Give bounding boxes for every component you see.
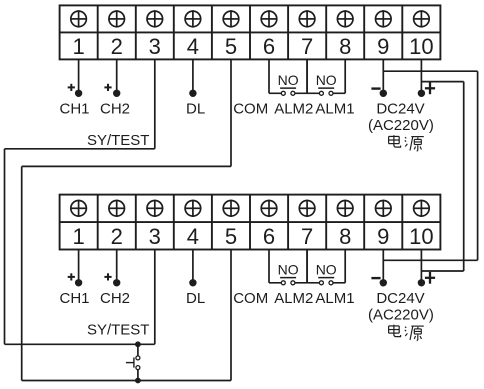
svg-text:1: 1 — [72, 224, 84, 249]
wire B1 to CH1 input — [78, 250, 80, 283]
node A10 power dot — [418, 90, 425, 97]
svg-text:1: 1 — [72, 34, 84, 59]
block B (lower strip) screw terminal 3 — [147, 200, 163, 217]
node com bus junction — [135, 378, 141, 384]
svg-text:5: 5 — [225, 224, 237, 249]
wire A10 power plus — [420, 59, 422, 93]
wire B2 to CH2 input — [116, 250, 118, 283]
wire right rail minus — [477, 71, 479, 260]
block B (lower strip) screw terminal 9 — [376, 200, 392, 217]
svg-text:2: 2 — [111, 224, 123, 249]
terminal block A (upper strip) body — [60, 5, 441, 59]
node B9 power dot — [380, 279, 387, 286]
polarity + sign upper — [425, 82, 435, 94]
node CH2 terminal dot — [113, 90, 120, 97]
svg-text:3: 3 — [149, 224, 161, 249]
svg-text:CH2: CH2 — [100, 100, 130, 117]
wire junction to button — [137, 344, 139, 356]
block A (upper strip) screw terminal 6 — [261, 10, 277, 27]
svg-text:DC24V: DC24V — [376, 290, 424, 307]
svg-text:5: 5 — [225, 34, 237, 59]
block B (lower strip) screw terminal 4 — [185, 200, 201, 217]
label power 源 upper — [405, 137, 424, 151]
relay contact NO ALM1 upper — [307, 59, 345, 95]
svg-text:4: 4 — [187, 224, 199, 249]
svg-text:ALM1: ALM1 — [315, 290, 354, 307]
wire right rail plus — [463, 82, 465, 271]
svg-text:2: 2 — [111, 34, 123, 59]
wire B5 COM drop — [230, 250, 232, 381]
relay contact NO ALM2 lower — [269, 250, 307, 285]
svg-text:7: 7 — [301, 34, 313, 59]
node CH1 terminal dot — [75, 90, 82, 97]
relay contact NO ALM1 lower — [307, 250, 345, 285]
svg-text:NO: NO — [278, 72, 299, 88]
block B (lower strip) screw terminal 5 — [223, 200, 239, 217]
node A9 power dot — [380, 90, 387, 97]
svg-text:CH1: CH1 — [59, 290, 89, 307]
label power 电 upper — [389, 135, 401, 147]
svg-text:NO: NO — [278, 261, 299, 277]
wire A10 to inner rail — [421, 81, 463, 83]
block A (upper strip) screw terminal 1 — [71, 10, 87, 27]
wire A3 horizontal run — [5, 148, 155, 150]
svg-text:SY/TEST: SY/TEST — [87, 321, 150, 338]
CH1 lower + sign — [68, 273, 75, 280]
svg-text:(AC220V): (AC220V) — [368, 117, 434, 134]
svg-text:COM: COM — [233, 290, 268, 307]
svg-text:(AC220V): (AC220V) — [368, 306, 434, 323]
block A (upper strip) screw terminal 2 — [109, 10, 125, 27]
block B (lower strip) terminal numbers 1-10 — [72, 224, 433, 249]
svg-text:CH2: CH2 — [100, 290, 130, 307]
wire B3 SY/TEST drop — [154, 250, 156, 345]
svg-text:NO: NO — [316, 72, 337, 88]
wire B10 power plus — [420, 250, 422, 283]
block B (lower strip) screw terminal 10 — [414, 200, 430, 217]
block A (upper strip) screw terminal 10 — [414, 10, 430, 27]
node DL terminal dot — [189, 90, 196, 97]
node DL lower dot — [189, 279, 196, 286]
block B (lower strip) screw terminal 7 — [299, 200, 315, 217]
node CH1 lower dot — [75, 279, 82, 286]
wire B4 to DL — [192, 250, 194, 283]
wire com bus horizontal — [22, 380, 231, 382]
terminal block B (lower strip) body — [60, 195, 441, 250]
relay contact NO ALM2 upper — [269, 59, 307, 95]
block A (upper strip) screw terminal 3 — [147, 10, 163, 27]
wire A4 to DL — [192, 59, 194, 93]
svg-text:6: 6 — [263, 224, 275, 249]
wire button to com bus — [137, 370, 139, 381]
svg-text:DC24V: DC24V — [376, 101, 424, 118]
block B (lower strip) screw terminal 8 — [337, 200, 353, 217]
node CH2 lower dot — [113, 279, 120, 286]
polarity + sign lower — [425, 272, 435, 284]
pushbutton SB1 contacts — [126, 356, 140, 370]
polarity - sign upper — [371, 87, 380, 89]
block A (upper strip) screw terminal 7 — [299, 10, 315, 27]
wire test bus horizontal — [5, 343, 155, 345]
svg-text:8: 8 — [339, 34, 351, 59]
svg-text:8: 8 — [339, 224, 351, 249]
wire A3 SY/TEST drop — [154, 59, 156, 148]
wire left rail from A3 — [4, 149, 6, 344]
CH2 lower + sign — [104, 273, 111, 280]
svg-text:9: 9 — [377, 224, 389, 249]
wire A1 to CH1 input — [78, 59, 80, 93]
node test bus junction — [135, 341, 141, 347]
wire A5 COM drop — [230, 59, 232, 166]
wire A5 horizontal run — [22, 165, 231, 167]
block A (upper strip) screw terminal 5 — [223, 10, 239, 27]
svg-text:ALM2: ALM2 — [274, 100, 313, 117]
wire rail to B9 — [383, 259, 477, 261]
svg-text:10: 10 — [409, 224, 433, 249]
svg-text:SY/TEST: SY/TEST — [87, 132, 150, 149]
svg-text:DL: DL — [186, 290, 205, 307]
svg-text:ALM2: ALM2 — [274, 290, 313, 307]
svg-text:ALM1: ALM1 — [315, 100, 354, 117]
polarity - sign lower — [371, 277, 380, 279]
wire B9 power minus — [382, 250, 384, 283]
node B10 power dot — [418, 279, 425, 286]
svg-text:CH1: CH1 — [59, 100, 89, 117]
block B (lower strip) screw terminal 2 — [109, 200, 125, 217]
svg-text:6: 6 — [263, 34, 275, 59]
svg-text:9: 9 — [377, 34, 389, 59]
wire rail to B10 — [421, 270, 463, 272]
svg-text:4: 4 — [187, 34, 199, 59]
svg-text:7: 7 — [301, 224, 313, 249]
svg-text:3: 3 — [149, 34, 161, 59]
wire A2 to CH2 input — [116, 59, 118, 93]
svg-text:10: 10 — [409, 34, 433, 59]
block B (lower strip) screw terminal 6 — [261, 200, 277, 217]
block A (upper strip) screw terminal 4 — [185, 10, 201, 27]
CH1 polarity + sign — [68, 84, 75, 91]
wire left rail from A5 — [21, 166, 23, 380]
block B (lower strip) screw terminal 1 — [71, 200, 87, 217]
svg-text:NO: NO — [316, 261, 337, 277]
label power 源 lower — [405, 326, 424, 340]
label power 电 lower — [389, 325, 401, 337]
wire A9 to right rail — [383, 70, 477, 72]
block A (upper strip) screw terminal 8 — [337, 10, 353, 27]
svg-text:DL: DL — [186, 100, 205, 117]
wire A9 power minus — [382, 59, 384, 93]
block A (upper strip) screw terminal 9 — [376, 10, 392, 27]
svg-text:COM: COM — [233, 100, 268, 117]
CH2 polarity + sign — [104, 84, 111, 91]
block A (upper strip) terminal numbers 1-10 — [72, 34, 433, 59]
